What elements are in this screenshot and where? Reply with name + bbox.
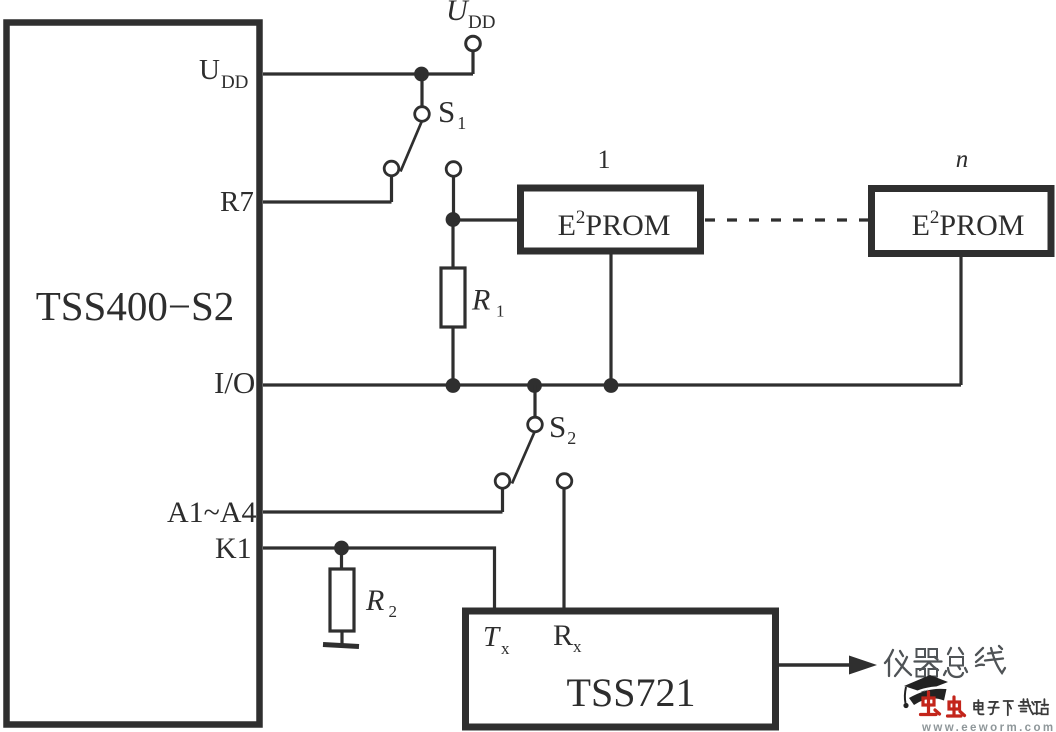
- terminal Rx throw of S2: [557, 474, 572, 489]
- label instrument bus (Chinese): [885, 646, 1005, 677]
- svg-text:A1~A4: A1~A4: [167, 496, 257, 529]
- pin label Rx: [553, 619, 582, 656]
- text E2PROM n: [912, 207, 1025, 242]
- resistor R1: [441, 268, 465, 327]
- pin label Tx: [483, 621, 510, 658]
- svg-text:2: 2: [389, 602, 398, 621]
- svg-text:R: R: [471, 284, 490, 317]
- svg-text:x: x: [501, 639, 510, 658]
- wire A1~A4: [263, 510, 503, 513]
- terminal circle UDD supply: [466, 36, 481, 51]
- svg-text:n: n: [956, 146, 969, 173]
- label TSS721: [567, 670, 696, 715]
- wire E2PROM n down to I/O bus: [959, 257, 962, 385]
- wire K1 to Tx: [263, 548, 495, 608]
- switch S1 throw 2 terminal: [446, 162, 461, 219]
- junction E2PROM 1 on I/O: [604, 378, 619, 393]
- svg-text:E2PROM: E2PROM: [558, 207, 671, 242]
- svg-text:T: T: [483, 621, 501, 653]
- switch S1: [384, 74, 429, 202]
- resistor R2: [330, 569, 354, 631]
- wire stub up to UDD terminal: [471, 51, 474, 74]
- pin label A1~A4: [167, 496, 257, 529]
- svg-text:R: R: [365, 584, 384, 617]
- IC TSS400-S2 box: [7, 23, 260, 725]
- svg-text:TSS721: TSS721: [567, 670, 696, 715]
- wire R1 to I/O bus: [451, 327, 454, 385]
- watermark site name (Chinese): [974, 699, 1048, 715]
- arrowhead instrument bus: [849, 656, 877, 675]
- junction S2 on I/O: [527, 378, 542, 393]
- junction K1/R2: [334, 541, 349, 556]
- label TSS400-S2: [36, 283, 235, 329]
- svg-text:K1: K1: [215, 532, 252, 565]
- IC TSS721 box: [466, 611, 776, 727]
- junction R1 on I/O: [446, 378, 461, 393]
- svg-text:U: U: [446, 0, 470, 27]
- E2PROM n box: [872, 189, 1052, 254]
- wire instrument bus arrow: [779, 663, 852, 667]
- dashed bus continuation: [705, 218, 870, 221]
- label R2: [365, 584, 397, 621]
- pin label I/O: [214, 365, 255, 400]
- wire Rx down to TSS721: [562, 489, 565, 609]
- svg-text:I/O: I/O: [214, 365, 255, 400]
- pin label K1: [215, 532, 252, 565]
- wire node to E2PROM 1: [453, 218, 517, 221]
- pin label R7: [220, 186, 254, 218]
- wire K1 junction to R2: [340, 548, 343, 569]
- wire R2 to ground: [340, 631, 343, 644]
- wire E2PROM 1 down to I/O: [609, 254, 612, 385]
- svg-text:TSS400−S2: TSS400−S2: [36, 283, 235, 329]
- wire UDD pin to supply: [263, 72, 473, 75]
- svg-text:1: 1: [496, 302, 505, 321]
- wire node to R1: [451, 226, 454, 268]
- wire I/O bus: [263, 383, 961, 386]
- ground: [323, 645, 359, 647]
- switch S2: [495, 385, 542, 512]
- label S2: [549, 409, 576, 448]
- wire R7: [263, 200, 392, 203]
- label 1 above E2PROM 1: [598, 145, 611, 174]
- label n above E2PROM n: [956, 146, 969, 173]
- watermark graduation cap: [903, 675, 948, 708]
- svg-text:E2PROM: E2PROM: [912, 207, 1025, 242]
- svg-text:DD: DD: [468, 12, 495, 33]
- junction UDD wire: [414, 67, 429, 82]
- pin label UDD: [199, 54, 248, 93]
- svg-text:R7: R7: [220, 186, 254, 218]
- label R1: [471, 284, 505, 321]
- junction node R1/E2PROM: [446, 212, 461, 227]
- svg-text:www.eeworm.com: www.eeworm.com: [921, 722, 1056, 732]
- svg-text:1: 1: [598, 145, 611, 174]
- label S1: [438, 94, 466, 133]
- text E2PROM 1: [558, 207, 671, 242]
- watermark chongchong characters: [921, 692, 965, 716]
- label UDD supply: [446, 0, 495, 33]
- watermark url: [921, 722, 1056, 732]
- E2PROM 1 box: [521, 188, 701, 251]
